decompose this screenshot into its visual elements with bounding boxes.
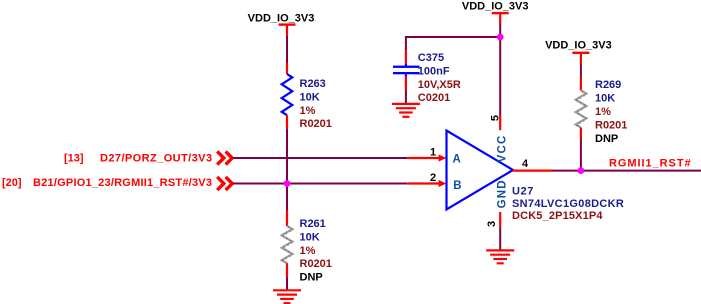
signal label B21/GPIO1_23/RGMII1_RST#/3V3: [2, 177, 212, 189]
svg-text:GND: GND: [496, 179, 508, 208]
svg-text:U27: U27: [512, 186, 534, 198]
pin 4: [513, 158, 553, 171]
power symbol VDD_IO_3V3 (center): [462, 0, 529, 23]
svg-text:RGMII1_RST#: RGMII1_RST#: [609, 158, 692, 170]
port chevron (input 2): [217, 177, 232, 190]
power symbol VDD_IO_3V3 (left): [248, 12, 315, 35]
svg-text:3: 3: [486, 221, 498, 227]
svg-text:VDD_IO_3V3: VDD_IO_3V3: [462, 0, 529, 12]
wire: [499, 23, 501, 37]
svg-text:VCC: VCC: [496, 134, 508, 162]
svg-text:SN74LVC1G08DCKR: SN74LVC1G08DCKR: [512, 198, 624, 210]
svg-text:1: 1: [430, 147, 436, 159]
svg-text:B21/GPIO1_23/RGMII1_RST#/3V3: B21/GPIO1_23/RGMII1_RST#/3V3: [33, 177, 212, 189]
resistor R269: [576, 77, 628, 144]
svg-text:5: 5: [489, 115, 501, 121]
svg-text:100nF: 100nF: [418, 65, 450, 77]
svg-text:10K: 10K: [595, 93, 615, 105]
pin 3: [486, 212, 500, 227]
svg-text:1%: 1%: [300, 105, 316, 117]
svg-text:4: 4: [522, 158, 529, 170]
ground (below U27): [486, 250, 514, 263]
svg-text:C0201: C0201: [418, 92, 450, 104]
svg-text:1%: 1%: [595, 106, 611, 118]
wire: [580, 139, 582, 171]
svg-text:R261: R261: [300, 218, 326, 230]
svg-text:10V,X5R: 10V,X5R: [418, 79, 461, 91]
ground (below C375): [392, 104, 420, 117]
wire: [406, 37, 500, 50]
svg-text:R0201: R0201: [300, 118, 332, 130]
junction: [578, 167, 585, 174]
resistor R261: [282, 210, 332, 284]
junction: [497, 34, 504, 41]
svg-text:DNP: DNP: [300, 272, 323, 284]
svg-text:B: B: [453, 180, 461, 192]
svg-text:VDD_IO_3V3: VDD_IO_3V3: [545, 40, 612, 52]
wire: [580, 64, 582, 77]
wire: [286, 277, 288, 290]
wire: [553, 170, 701, 172]
svg-text:R263: R263: [300, 78, 326, 90]
svg-text:D27/PORZ_OUT/3V3: D27/PORZ_OUT/3V3: [100, 152, 212, 164]
svg-text:R269: R269: [595, 79, 621, 91]
signal label D27/PORZ_OUT/3V3: [64, 152, 212, 164]
pin 2: [407, 172, 446, 187]
port chevron (input 1): [217, 151, 232, 164]
wire: [499, 37, 501, 116]
ground (below R261): [273, 290, 301, 303]
svg-text:DNP: DNP: [595, 133, 618, 145]
wire: [233, 157, 407, 159]
svg-text:A: A: [453, 154, 461, 166]
capacitor C375: [393, 50, 461, 104]
svg-text:[13]: [13]: [64, 152, 84, 164]
svg-text:R0201: R0201: [595, 119, 627, 131]
pin 5: [489, 115, 501, 130]
AND-gate U27: [447, 131, 514, 210]
wire: [499, 226, 501, 250]
wire: [233, 183, 407, 185]
wire: [286, 36, 288, 63]
svg-text:R0201: R0201: [300, 258, 332, 270]
power symbol VDD_IO_3V3 (right): [545, 40, 612, 64]
svg-text:[20]: [20]: [2, 177, 22, 189]
junction: [284, 180, 291, 187]
svg-text:2: 2: [430, 172, 436, 184]
wire: [405, 90, 407, 104]
pin 1: [407, 147, 446, 162]
svg-text:10K: 10K: [300, 91, 320, 103]
svg-text:DCK5_2P15X1P4: DCK5_2P15X1P4: [512, 210, 603, 222]
svg-text:1%: 1%: [300, 245, 316, 257]
U27 reference labels: [512, 186, 624, 222]
svg-text:VDD_IO_3V3: VDD_IO_3V3: [248, 12, 315, 24]
svg-text:C375: C375: [418, 52, 444, 64]
svg-text:10K: 10K: [300, 231, 320, 243]
resistor R263: [282, 63, 332, 131]
wire: [286, 129, 288, 210]
